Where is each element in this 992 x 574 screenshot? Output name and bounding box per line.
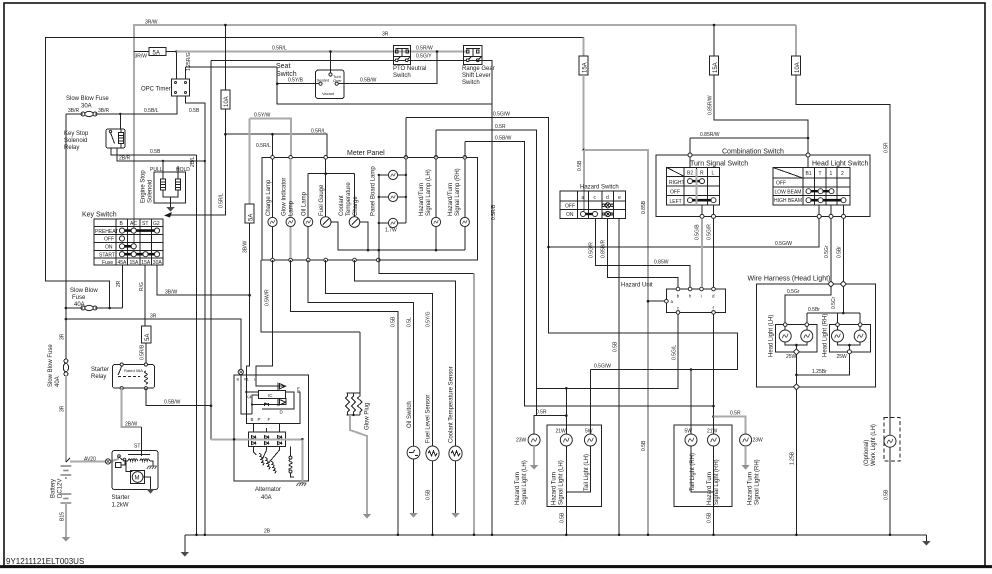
svg-text:0.5Y/W: 0.5Y/W xyxy=(254,113,271,119)
svg-text:Fuel Level Sensor: Fuel Level Sensor xyxy=(426,395,432,443)
svg-text:0.5B/W: 0.5B/W xyxy=(495,136,512,142)
svg-text:P: P xyxy=(258,417,261,422)
svg-text:K1: K1 xyxy=(244,377,250,382)
svg-text:23W: 23W xyxy=(516,438,527,444)
svg-text:3R: 3R xyxy=(382,32,389,38)
wire seat return to glow xyxy=(261,260,360,332)
wire hazard unit a xyxy=(648,300,665,302)
svg-text:5W: 5W xyxy=(585,429,593,435)
tail light LH box xyxy=(547,425,602,507)
starter motor M1 xyxy=(131,471,145,484)
svg-text:START: START xyxy=(99,252,115,258)
wire battery positive xyxy=(65,376,67,462)
wire 0.85R/W 15A to combination xyxy=(714,75,808,138)
starter solenoid coils xyxy=(128,459,138,461)
svg-text:Panel Board Lamp: Panel Board Lamp xyxy=(371,166,377,216)
svg-text:AC: AC xyxy=(130,221,137,227)
svg-text:0.5B: 0.5B xyxy=(391,316,397,327)
wire key switch B to 40A line xyxy=(122,265,124,308)
svg-text:0.5R: 0.5R xyxy=(730,411,741,417)
svg-text:M: M xyxy=(135,476,140,482)
wire 0.5B/L OPC to relay xyxy=(120,96,177,114)
svg-text:Over: Over xyxy=(333,78,342,83)
range gear shift lever switch xyxy=(464,46,482,65)
alternator stator coils xyxy=(255,453,280,473)
svg-text:Key Switch: Key Switch xyxy=(82,212,117,219)
svg-text:21W: 21W xyxy=(707,429,718,435)
svg-text:Rated 06A: Rated 06A xyxy=(124,368,143,373)
svg-text:0.5R: 0.5R xyxy=(536,410,547,416)
wire 3R feed xyxy=(46,38,584,309)
wire 5A to OPC xyxy=(134,51,149,53)
svg-text:23W: 23W xyxy=(753,438,764,444)
svg-text:Head Light Switch: Head Light Switch xyxy=(812,161,869,168)
wire OPC pin feed xyxy=(176,52,178,80)
svg-text:3R/W: 3R/W xyxy=(145,20,158,26)
wire relay to pin xyxy=(119,114,121,129)
hazard/turn signal lamp RH xyxy=(464,159,466,217)
svg-text:0.5W/R: 0.5W/R xyxy=(265,289,271,306)
svg-text:B: B xyxy=(251,417,254,422)
svg-text:15A: 15A xyxy=(130,260,140,266)
svg-text:Slow Blow Fuse: Slow Blow Fuse xyxy=(66,96,109,102)
wire OPC aux feed xyxy=(186,66,278,68)
svg-text:R: R xyxy=(700,171,704,177)
svg-text:0.85B/R: 0.85B/R xyxy=(601,240,607,258)
wire 30A fuse to relay xyxy=(66,113,83,115)
svg-text:Solenoid: Solenoid xyxy=(148,180,154,203)
svg-text:25W: 25W xyxy=(837,354,848,360)
svg-text:R/G: R/G xyxy=(139,282,145,291)
svg-text:0.5Gr: 0.5Gr xyxy=(787,289,800,295)
fuse 15A (hazard) xyxy=(583,38,585,57)
svg-text:Fuel Gauge: Fuel Gauge xyxy=(319,184,325,216)
svg-text:2: 2 xyxy=(841,171,844,177)
meter top nodes xyxy=(271,156,275,160)
svg-text:Wire Harness (Head Light): Wire Harness (Head Light) xyxy=(748,276,831,283)
svg-text:Glow Indicator: Glow Indicator xyxy=(282,178,288,216)
svg-text:B15: B15 xyxy=(60,512,66,521)
svg-text:3B/R: 3B/R xyxy=(68,108,80,114)
node at 15A tap xyxy=(713,24,716,27)
svg-text:Glow Plug: Glow Plug xyxy=(365,403,371,430)
svg-text:ST: ST xyxy=(142,221,148,227)
svg-text:0.5B/W: 0.5B/W xyxy=(164,400,181,406)
svg-text:ON: ON xyxy=(566,212,574,218)
svg-text:Hazard Turn: Hazard Turn xyxy=(707,472,713,505)
svg-text:DC12V: DC12V xyxy=(58,479,64,498)
svg-text:2R: 2R xyxy=(116,280,122,287)
harness ground 1.25Br xyxy=(795,354,797,375)
wire 21W LH feed down xyxy=(565,388,567,434)
svg-text:0.5R: 0.5R xyxy=(884,142,890,153)
svg-text:0.5Y/B: 0.5Y/B xyxy=(288,78,304,84)
fuse 30A symbol xyxy=(81,111,97,116)
fuse 5A (starter relay) xyxy=(142,326,151,343)
svg-text:B2: B2 xyxy=(687,171,693,177)
wire 0.5B OPC down xyxy=(186,96,205,535)
svg-text:Coolant: Coolant xyxy=(339,195,345,216)
svg-text:Lamp: Lamp xyxy=(289,200,295,216)
glow indicator lamp xyxy=(290,159,292,217)
svg-text:15A: 15A xyxy=(141,260,151,266)
wire hazard unit f turn RH xyxy=(713,314,715,434)
wire hazard feed jog xyxy=(583,149,586,152)
svg-text:Work Light (LH): Work Light (LH) xyxy=(871,424,877,466)
fuel gauge xyxy=(325,159,327,217)
glow plug ground wire xyxy=(350,415,367,514)
svg-text:Combination Switch: Combination Switch xyxy=(722,149,784,156)
arrow into key switch xyxy=(164,212,172,218)
svg-text:Starter: Starter xyxy=(91,367,109,373)
svg-text:Range Gear: Range Gear xyxy=(462,66,495,72)
svg-text:0.5B: 0.5B xyxy=(426,489,432,500)
svg-text:Signal Lamp (RH): Signal Lamp (RH) xyxy=(455,168,461,216)
svg-text:1.7W: 1.7W xyxy=(385,228,397,234)
wire hazard e down xyxy=(618,218,620,534)
svg-text:Relay: Relay xyxy=(64,145,79,151)
svg-text:i: i xyxy=(701,294,702,299)
wire 0.5B/W relay to alternator xyxy=(146,388,211,406)
wire 2B/L down xyxy=(196,155,198,535)
svg-text:40A: 40A xyxy=(261,495,272,501)
svg-text:0.5G/W: 0.5G/W xyxy=(775,241,792,247)
svg-text:ON: ON xyxy=(105,245,113,251)
svg-text:3R: 3R xyxy=(60,333,66,340)
svg-text:3B/R: 3B/R xyxy=(98,108,110,114)
svg-text:0.5R: 0.5R xyxy=(495,124,506,130)
svg-text:T: T xyxy=(819,171,822,177)
svg-text:15A: 15A xyxy=(713,62,719,73)
svg-text:0.5G/R: 0.5G/R xyxy=(589,242,595,258)
svg-text:0.5R/L: 0.5R/L xyxy=(311,129,326,135)
svg-text:LOW BEAM: LOW BEAM xyxy=(775,189,802,195)
svg-text:Fuse: Fuse xyxy=(72,295,86,301)
svg-text:0.5Cr: 0.5Cr xyxy=(831,296,837,309)
svg-text:2B/L: 2B/L xyxy=(190,156,196,167)
svg-text:5A: 5A xyxy=(153,50,160,56)
svg-text:2B/R: 2B/R xyxy=(119,156,131,162)
svg-text:25W: 25W xyxy=(786,354,797,360)
fuse 5A (OPC) xyxy=(149,48,166,56)
svg-text:3R/W: 3R/W xyxy=(135,54,148,60)
key switch contacts xyxy=(119,228,159,257)
wire hazard unit c turn LH xyxy=(537,314,678,388)
wire 0.5R/L from 10A xyxy=(170,109,225,215)
svg-text:0.5Gr: 0.5Gr xyxy=(824,245,830,258)
wire seat left 0.5Y/B xyxy=(277,83,319,85)
svg-text:Coolant Temperature Sensor: Coolant Temperature Sensor xyxy=(449,366,455,443)
bottom thick border xyxy=(0,565,992,568)
svg-text:Vacant: Vacant xyxy=(322,91,335,96)
wire range switch down xyxy=(477,60,493,535)
wire head light 2 down xyxy=(843,218,845,282)
wire seat top pin to 0.5R/L xyxy=(330,52,332,73)
coolant sender wire xyxy=(360,222,368,250)
alternator rotor coil xyxy=(289,456,292,459)
svg-text:5A: 5A xyxy=(248,214,254,221)
coolant temperature gauge xyxy=(354,174,356,217)
svg-text:F: F xyxy=(268,417,271,422)
svg-text:Charge: Charge xyxy=(353,196,359,216)
svg-text:5A: 5A xyxy=(145,334,151,341)
svg-text:10A: 10A xyxy=(224,96,230,107)
svg-text:Head Light (LH): Head Light (LH) xyxy=(769,315,775,357)
wire lower feed row xyxy=(210,60,212,405)
wire 0.5B relay out xyxy=(111,148,197,155)
wire 23W RH lamp feed xyxy=(714,417,746,435)
svg-text:Hazard Turn: Hazard Turn xyxy=(748,472,754,505)
fuse 10A xyxy=(224,25,226,90)
harness RH feed 0.5Br xyxy=(842,286,844,313)
svg-text:0.5R/L: 0.5R/L xyxy=(272,46,287,52)
svg-text:Hazard/Turn: Hazard/Turn xyxy=(448,183,454,216)
svg-text:21W: 21W xyxy=(556,429,567,435)
svg-text:0.5L: 0.5L xyxy=(407,317,413,327)
svg-text:0.5R/L: 0.5R/L xyxy=(256,143,271,149)
fuse 15A (turn signal) xyxy=(713,25,715,56)
fuse 10A (head light) xyxy=(795,25,797,56)
svg-text:3B/W: 3B/W xyxy=(165,290,178,296)
svg-text:B1: B1 xyxy=(806,171,812,177)
svg-text:Hazard Turn: Hazard Turn xyxy=(552,472,558,505)
svg-text:Signal Light (RH): Signal Light (RH) xyxy=(714,459,720,505)
svg-text:0.5G/W: 0.5G/W xyxy=(594,364,611,370)
meter bottom nodes xyxy=(271,258,275,262)
alternator rectifier xyxy=(249,432,286,447)
wire 3R battery bus xyxy=(66,319,241,369)
svg-text:Head Light (RH): Head Light (RH) xyxy=(823,314,829,357)
svg-text:Tail Light (LH): Tail Light (LH) xyxy=(584,454,590,491)
svg-text:(Optional): (Optional) xyxy=(864,440,870,466)
svg-text:Slow Blow Fuse: Slow Blow Fuse xyxy=(48,344,54,387)
svg-text:0.5Y/G: 0.5Y/G xyxy=(426,311,432,327)
svg-text:K4: K4 xyxy=(246,395,252,400)
wire seat right 0.5B/W to PTO loop xyxy=(338,52,437,84)
svg-text:d: d xyxy=(606,195,609,201)
wire 0.5R/L to meter xyxy=(225,134,327,157)
fuse 5A (meter) xyxy=(245,204,254,223)
connector (starter cable) xyxy=(105,459,110,464)
svg-text:0.5B: 0.5B xyxy=(577,160,583,171)
svg-text:2B/W: 2B/W xyxy=(125,422,138,428)
svg-text:Engine Stop: Engine Stop xyxy=(141,170,147,203)
svg-text:OFF: OFF xyxy=(776,181,786,187)
wire turn R to hazard unit i xyxy=(701,218,703,287)
svg-text:Hazard Switch: Hazard Switch xyxy=(580,185,619,191)
gray pass through alternator xyxy=(211,438,302,440)
svg-text:0.5G/W: 0.5G/W xyxy=(493,112,510,118)
svg-text:Oil Switch: Oil Switch xyxy=(407,401,413,428)
svg-text:L: L xyxy=(712,171,715,177)
svg-text:Fuse: Fuse xyxy=(102,260,113,266)
wire 2B/W relay to starter xyxy=(122,388,142,427)
svg-text:1: 1 xyxy=(830,171,833,177)
svg-text:0.5G/Y: 0.5G/Y xyxy=(416,54,432,60)
svg-text:10A: 10A xyxy=(795,62,801,73)
svg-text:Battery: Battery xyxy=(51,479,57,498)
wire tail light feed 0.5G/W xyxy=(405,118,407,158)
svg-text:HIGH BEAM: HIGH BEAM xyxy=(774,198,802,204)
svg-text:1.25Br: 1.25Br xyxy=(812,369,827,375)
tail light RH box xyxy=(674,425,732,507)
svg-text:Solenoid: Solenoid xyxy=(64,138,87,144)
svg-text:0.5B: 0.5B xyxy=(560,512,566,523)
wire RH chain 0.5B/W xyxy=(464,142,466,158)
svg-text:PREHEAT: PREHEAT xyxy=(95,229,118,235)
svg-text:0.85B: 0.85B xyxy=(641,200,647,214)
fuel gauge sender wire xyxy=(331,222,465,250)
svg-text:0.5B: 0.5B xyxy=(641,440,647,451)
svg-text:Alternator: Alternator xyxy=(255,487,281,493)
svg-text:1.25R/G: 1.25R/G xyxy=(186,52,192,71)
charge lamp xyxy=(272,159,274,217)
svg-text:RIGHT: RIGHT xyxy=(669,180,685,186)
ground (engine stop) xyxy=(166,207,174,212)
svg-text:9Y1211121ELT003US: 9Y1211121ELT003US xyxy=(6,557,84,566)
svg-text:B: B xyxy=(237,377,240,382)
svg-text:15A: 15A xyxy=(582,62,588,73)
wire key switch G2 glow feed xyxy=(157,265,250,295)
meter ground 0.5B xyxy=(291,260,398,535)
svg-text:1.25B: 1.25B xyxy=(790,451,796,465)
svg-text:0.5B: 0.5B xyxy=(884,489,890,500)
wire charge lamp to L xyxy=(256,260,273,375)
svg-text:30A: 30A xyxy=(81,104,92,110)
svg-text:40A: 40A xyxy=(55,376,61,387)
svg-text:1.2kW: 1.2kW xyxy=(112,503,129,509)
svg-text:PTO Neutral: PTO Neutral xyxy=(393,66,426,72)
svg-text:0.85R/W: 0.85R/W xyxy=(700,132,720,138)
wire key switch ST to 5A fuse xyxy=(144,265,146,326)
svg-text:Hazard Unit: Hazard Unit xyxy=(621,283,653,289)
svg-text:0.5R/L: 0.5R/L xyxy=(219,193,225,208)
wire 2B/R relay out xyxy=(117,148,205,161)
svg-text:Oil Lamp: Oil Lamp xyxy=(302,191,308,216)
svg-text:0.5Br: 0.5Br xyxy=(837,246,843,258)
svg-text:3R: 3R xyxy=(60,405,66,412)
svg-text:0.5Br: 0.5Br xyxy=(808,307,820,313)
ground (battery) xyxy=(62,537,70,542)
svg-text:0.5R/B: 0.5R/B xyxy=(491,204,497,220)
hazard switch ON contacts xyxy=(583,213,595,215)
svg-text:OPC Timer: OPC Timer xyxy=(141,87,171,93)
svg-text:Seated: Seated xyxy=(317,78,330,83)
svg-text:2B: 2B xyxy=(264,529,271,535)
wire return loop xyxy=(277,67,492,104)
svg-text:Signal Light (LH): Signal Light (LH) xyxy=(522,460,528,505)
svg-text:0.5B/W: 0.5B/W xyxy=(360,78,377,84)
svg-text:Hazard/Turn: Hazard/Turn xyxy=(419,183,425,216)
svg-text:Starter: Starter xyxy=(112,495,130,501)
svg-text:Temperature: Temperature xyxy=(346,182,352,216)
wire left drop to 40A line xyxy=(65,114,67,308)
svg-text:OFF: OFF xyxy=(670,189,680,195)
svg-text:3R: 3R xyxy=(150,314,157,320)
svg-text:a: a xyxy=(582,195,585,201)
OPC Timer U1 xyxy=(172,79,190,96)
svg-text:0.5R/B: 0.5R/B xyxy=(140,344,146,360)
svg-text:Signal Light (LH): Signal Light (LH) xyxy=(559,460,565,505)
wire LH chain 0.5R xyxy=(435,130,437,157)
svg-text:0.5B: 0.5B xyxy=(189,108,200,114)
battery xyxy=(66,458,70,462)
wire 0.5Y/W glow ind feed xyxy=(250,119,291,158)
wire head light 0.5G/W xyxy=(549,216,820,247)
svg-text:Charge Lamp: Charge Lamp xyxy=(266,179,272,216)
svg-text:Seat: Seat xyxy=(276,63,290,70)
svg-text:ST: ST xyxy=(134,444,140,450)
svg-text:Key Stop: Key Stop xyxy=(64,131,89,137)
svg-text:3B/W: 3B/W xyxy=(243,240,249,253)
svg-text:0.5B: 0.5B xyxy=(707,512,713,523)
wire hazard d to unit b xyxy=(607,218,678,287)
connector (alternator B) xyxy=(238,369,243,374)
svg-text:Hazard Turn: Hazard Turn xyxy=(515,472,521,505)
svg-text:0.5B/L: 0.5B/L xyxy=(144,108,159,114)
ground bus xyxy=(185,534,927,536)
wire 3R/W main feed (highlighted) xyxy=(134,25,796,250)
PTO neutral switch xyxy=(393,46,410,65)
svg-text:Relay: Relay xyxy=(91,374,106,380)
alternator internals xyxy=(259,391,286,399)
svg-text:LEFT: LEFT xyxy=(670,199,682,205)
svg-text:0.85R/W: 0.85R/W xyxy=(708,95,714,115)
wire 10A to work light xyxy=(796,75,890,436)
wire 1.25B harness to ground bus xyxy=(795,389,797,535)
svg-text:0.85W: 0.85W xyxy=(654,260,669,266)
wire head light 1 down xyxy=(830,218,832,282)
oil lamp xyxy=(308,173,354,175)
svg-text:0.5B: 0.5B xyxy=(150,149,161,155)
wire seat/pto feed 0.5R/L xyxy=(177,51,468,53)
svg-text:E: E xyxy=(297,387,300,392)
wire 3B/W below 5A xyxy=(246,223,249,375)
wire 0.5G/Y lower row xyxy=(211,59,477,61)
alternator xyxy=(234,375,308,481)
svg-text:0.5R/W: 0.5R/W xyxy=(416,46,433,52)
harness LH feed 0.5Gr xyxy=(785,286,831,322)
svg-text:OFF: OFF xyxy=(565,203,575,209)
svg-text:IC: IC xyxy=(268,393,273,398)
svg-text:0.5G/B: 0.5G/B xyxy=(695,224,701,240)
svg-text:Switch: Switch xyxy=(393,73,411,79)
svg-text:0.5G/R: 0.5G/R xyxy=(707,224,713,240)
wire turn L to hazard unit d xyxy=(713,218,715,287)
svg-text:e: e xyxy=(618,195,621,201)
svg-text:Turn Signal Switch: Turn Signal Switch xyxy=(690,161,748,168)
svg-text:Switch: Switch xyxy=(462,80,480,86)
svg-text:G2: G2 xyxy=(153,221,160,227)
starter xyxy=(112,451,158,490)
svg-text:Signal Light (RH): Signal Light (RH) xyxy=(755,459,761,505)
svg-text:Shift Lever: Shift Lever xyxy=(462,73,491,79)
svg-text:Signal Lamp (LH): Signal Lamp (LH) xyxy=(426,169,432,216)
svg-text:0.5B: 0.5B xyxy=(613,341,619,352)
svg-text:OFF: OFF xyxy=(104,237,114,243)
hazard switch OFF pilot lamp xyxy=(602,203,613,208)
svg-text:Meter Panel: Meter Panel xyxy=(347,150,385,157)
wire 23W LH lamp feed xyxy=(534,416,537,435)
svg-text:Slow Blow: Slow Blow xyxy=(70,288,98,294)
wire battery to starter xyxy=(70,461,105,463)
meter panel lamp exits xyxy=(379,260,474,273)
svg-text:0.5G/L: 0.5G/L xyxy=(672,345,678,360)
hazard/turn signal lamp LH xyxy=(435,159,437,217)
wire hazard c 0.85W to unit xyxy=(596,218,691,289)
